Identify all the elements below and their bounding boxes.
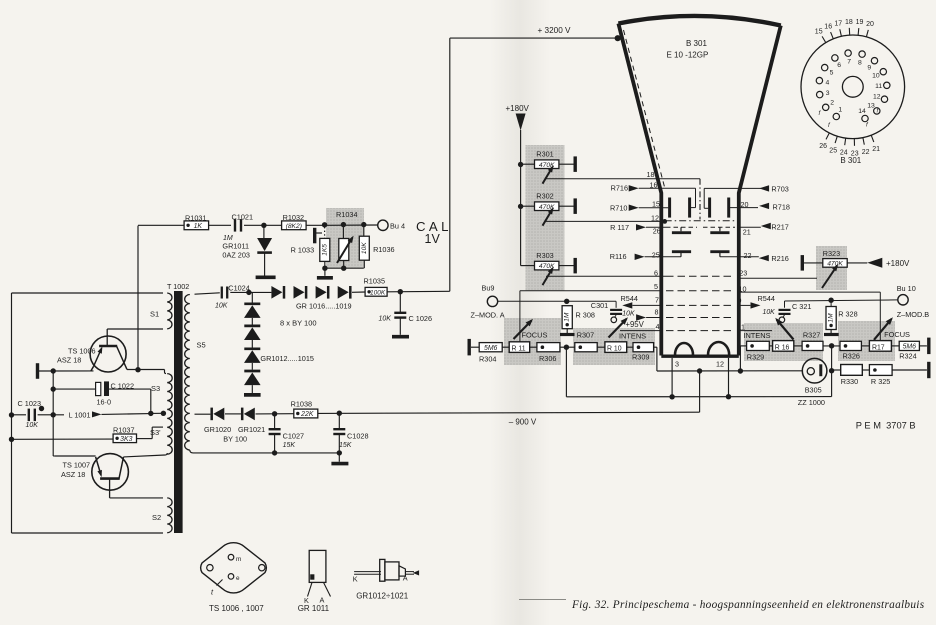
svg-text:R306: R306 <box>539 354 556 363</box>
svg-text:4: 4 <box>826 79 830 86</box>
svg-text:21: 21 <box>872 146 880 153</box>
svg-text:0AZ 203: 0AZ 203 <box>222 251 250 260</box>
svg-text:R 11: R 11 <box>512 346 526 353</box>
svg-text:20: 20 <box>866 21 874 28</box>
svg-text:15: 15 <box>815 28 823 35</box>
svg-text:1V: 1V <box>425 232 441 246</box>
svg-text:8: 8 <box>655 308 659 317</box>
svg-text:R 1033: R 1033 <box>291 246 315 255</box>
svg-text:16: 16 <box>650 181 658 190</box>
svg-text:100K: 100K <box>370 289 386 296</box>
svg-text:12: 12 <box>651 213 659 222</box>
svg-text:R 16: R 16 <box>775 344 790 351</box>
svg-text:R1037: R1037 <box>113 426 135 435</box>
svg-text:INTENS: INTENS <box>619 332 646 341</box>
svg-text:TS 1006 , 1007: TS 1006 , 1007 <box>209 604 264 613</box>
svg-text:R1034: R1034 <box>336 210 358 219</box>
svg-text:8 x BY 100: 8 x BY 100 <box>280 318 317 327</box>
svg-text:3K3: 3K3 <box>120 436 132 443</box>
svg-text:R718: R718 <box>773 203 790 212</box>
svg-text:R307: R307 <box>577 330 594 339</box>
svg-text:Bu 10: Bu 10 <box>897 284 916 293</box>
svg-text:C1024: C1024 <box>228 283 250 292</box>
svg-text:R703: R703 <box>771 185 788 194</box>
svg-text:R1038: R1038 <box>291 399 313 408</box>
svg-text:14: 14 <box>858 108 866 115</box>
svg-text:P E M 3707 B: P E M 3707 B <box>856 421 916 431</box>
svg-text:L 1001: L 1001 <box>69 411 91 420</box>
svg-text:1K: 1K <box>194 223 203 230</box>
svg-text:ASZ 18: ASZ 18 <box>61 470 85 479</box>
svg-text:1K5: 1K5 <box>321 244 328 256</box>
svg-text:1M: 1M <box>828 313 835 323</box>
svg-text:25: 25 <box>652 251 660 260</box>
svg-text:R 328: R 328 <box>838 309 857 318</box>
svg-text:R303: R303 <box>536 251 553 260</box>
svg-text:S2: S2 <box>152 513 161 522</box>
svg-text:6: 6 <box>837 62 841 69</box>
svg-text:C 1026: C 1026 <box>409 314 433 323</box>
svg-text:GR1021: GR1021 <box>238 425 265 434</box>
svg-text:+95V: +95V <box>625 320 644 329</box>
svg-text:R309: R309 <box>632 352 649 361</box>
svg-text:R216: R216 <box>771 254 788 263</box>
svg-text:Fig. 32. Principeschema - hoog: Fig. 32. Principeschema - hoogspanningse… <box>571 599 925 611</box>
svg-text:R304: R304 <box>479 355 496 364</box>
svg-text:ASZ 18: ASZ 18 <box>57 356 81 365</box>
svg-text:7: 7 <box>847 59 851 66</box>
svg-text:R329: R329 <box>747 353 764 362</box>
svg-text:GR1012.....1015: GR1012.....1015 <box>260 354 314 363</box>
svg-text:+180V: +180V <box>886 259 910 268</box>
svg-text:B 301: B 301 <box>686 39 707 48</box>
svg-text:5: 5 <box>830 70 834 77</box>
svg-text:Z–MOD.B: Z–MOD.B <box>897 310 930 319</box>
svg-text:R1035: R1035 <box>364 276 386 285</box>
svg-text:R323: R323 <box>823 249 840 258</box>
svg-text:BY 100: BY 100 <box>223 435 247 444</box>
svg-text:22: 22 <box>862 149 870 156</box>
svg-text:10K: 10K <box>763 309 776 316</box>
svg-text:T 1002: T 1002 <box>167 282 189 291</box>
svg-text:R116: R116 <box>610 252 627 261</box>
svg-text:17: 17 <box>834 20 842 27</box>
svg-text:R544: R544 <box>621 294 638 303</box>
svg-text:R 10: R 10 <box>607 346 622 353</box>
svg-text:26: 26 <box>819 143 827 150</box>
svg-text:10K: 10K <box>622 310 635 317</box>
svg-text:R327: R327 <box>803 331 820 340</box>
svg-text:10K: 10K <box>215 303 228 310</box>
svg-text:GR1011: GR1011 <box>222 242 249 251</box>
svg-text:TS 1006: TS 1006 <box>68 346 96 355</box>
svg-text:R302: R302 <box>536 192 553 201</box>
svg-text:10K: 10K <box>361 242 368 254</box>
svg-text:Bu9: Bu9 <box>482 283 495 292</box>
svg-text:R1031: R1031 <box>185 214 207 223</box>
svg-text:C1027: C1027 <box>283 431 305 440</box>
svg-text:INTENS: INTENS <box>743 331 770 340</box>
svg-text:R1036: R1036 <box>373 245 395 254</box>
svg-text:5: 5 <box>654 282 658 291</box>
svg-text:23: 23 <box>739 268 747 277</box>
svg-text:Bu 4: Bu 4 <box>390 221 405 230</box>
svg-text:(8K2): (8K2) <box>286 223 302 230</box>
svg-text:B305: B305 <box>805 385 822 394</box>
svg-text:R1032: R1032 <box>283 213 305 222</box>
svg-text:R301: R301 <box>536 150 553 159</box>
svg-text:m: m <box>236 556 241 563</box>
svg-text:C301: C301 <box>591 301 608 310</box>
svg-text:22K: 22K <box>300 411 314 418</box>
svg-text:ZZ 1000: ZZ 1000 <box>798 398 825 407</box>
svg-text:16: 16 <box>824 24 832 31</box>
svg-text:15K: 15K <box>283 442 296 449</box>
svg-text:+ 3200 V: + 3200 V <box>538 26 572 35</box>
svg-text:C 1022: C 1022 <box>111 381 135 390</box>
svg-text:S3: S3 <box>151 384 160 393</box>
svg-text:S1: S1 <box>150 310 159 319</box>
svg-text:A: A <box>403 574 408 583</box>
svg-text:9: 9 <box>867 64 871 71</box>
svg-text:R217: R217 <box>771 222 788 231</box>
svg-text:R544: R544 <box>758 294 775 303</box>
svg-text:C 321: C 321 <box>792 302 811 311</box>
svg-text:12: 12 <box>716 360 724 369</box>
svg-text:R716: R716 <box>611 184 628 193</box>
svg-text:FOCUS: FOCUS <box>522 330 548 339</box>
svg-text:18: 18 <box>845 19 853 26</box>
svg-text:FOCUS: FOCUS <box>884 330 910 339</box>
svg-text:25: 25 <box>829 147 837 154</box>
svg-text:K: K <box>353 575 358 584</box>
svg-text:C1028: C1028 <box>347 431 369 440</box>
svg-text:GR1012÷1021: GR1012÷1021 <box>356 592 409 601</box>
svg-text:1: 1 <box>838 107 842 114</box>
svg-text:GR1020: GR1020 <box>204 425 231 434</box>
svg-text:12: 12 <box>873 94 881 101</box>
svg-text:B 301: B 301 <box>840 156 861 165</box>
svg-text:7: 7 <box>655 296 659 305</box>
svg-text:Z–MOD. A: Z–MOD. A <box>471 310 505 319</box>
svg-text:– 900 V: – 900 V <box>509 418 537 427</box>
svg-text:11: 11 <box>875 83 882 90</box>
svg-text:3: 3 <box>675 360 679 369</box>
svg-text:10K: 10K <box>379 316 392 323</box>
svg-text:20: 20 <box>741 200 749 209</box>
svg-text:5M6: 5M6 <box>484 345 498 352</box>
svg-text:GR 1016.....1019: GR 1016.....1019 <box>296 301 352 310</box>
svg-text:R710: R710 <box>610 204 627 213</box>
svg-text:R17: R17 <box>872 344 885 351</box>
svg-text:13: 13 <box>867 102 875 109</box>
svg-text:16·0: 16·0 <box>97 398 112 407</box>
svg-text:C 1023: C 1023 <box>18 399 42 408</box>
svg-text:R326: R326 <box>843 351 860 360</box>
svg-text:21: 21 <box>743 228 751 237</box>
svg-text:19: 19 <box>856 19 864 26</box>
svg-text:R 117: R 117 <box>610 223 629 232</box>
svg-text:1M: 1M <box>564 312 571 322</box>
svg-text:e: e <box>236 575 240 582</box>
svg-text:3: 3 <box>826 90 830 97</box>
svg-text:8: 8 <box>858 59 862 66</box>
svg-text:18: 18 <box>647 170 655 179</box>
svg-text:R 325: R 325 <box>871 377 890 386</box>
svg-text:15: 15 <box>652 199 660 208</box>
svg-text:26: 26 <box>653 227 661 236</box>
svg-text:10: 10 <box>872 73 880 80</box>
svg-text:22: 22 <box>744 251 752 260</box>
svg-text:5M6: 5M6 <box>903 344 917 351</box>
svg-text:2: 2 <box>830 100 834 107</box>
svg-text:15K: 15K <box>339 442 352 449</box>
svg-text:S5: S5 <box>197 341 206 350</box>
svg-text:10K: 10K <box>26 422 39 429</box>
svg-text:TS 1007: TS 1007 <box>63 460 91 469</box>
svg-text:R330: R330 <box>841 377 858 386</box>
svg-text:+180V: +180V <box>506 104 530 113</box>
svg-text:E 10 -12GP: E 10 -12GP <box>667 51 709 60</box>
svg-text:C1021: C1021 <box>232 212 254 221</box>
svg-text:GR 1011: GR 1011 <box>298 604 330 613</box>
svg-text:R324: R324 <box>899 352 916 361</box>
svg-text:9: 9 <box>738 296 742 305</box>
svg-text:4: 4 <box>656 322 660 331</box>
svg-text:R 308: R 308 <box>576 311 595 320</box>
